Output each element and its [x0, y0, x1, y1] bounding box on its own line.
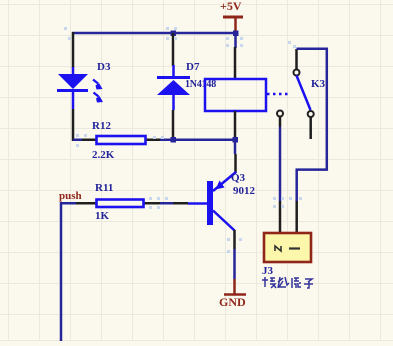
- svg-text:R12: R12: [92, 120, 111, 132]
- wire top horizontal +5V rail: [72, 32, 236, 35]
- pin J3 pin1: [279, 201, 282, 234]
- svg-text:D7: D7: [186, 61, 200, 73]
- relay K3 coil body: [205, 79, 266, 111]
- transistor Q3: [188, 172, 236, 231]
- svg-text:R11: R11: [95, 182, 113, 194]
- wire relay junction down to Q3 emitter: [234, 140, 237, 154]
- wire collector to GND: [233, 249, 236, 279]
- power GND symbol: [219, 279, 246, 309]
- pin Q3 emitter: [234, 154, 237, 173]
- selection grid dots (light): [64, 27, 302, 253]
- wire K3 top to right rail: [297, 49, 327, 201]
- power +5V symbol: [220, 0, 243, 32]
- label 接线端子: [262, 277, 313, 288]
- junction dot at D7 top: [171, 31, 177, 37]
- svg-text:+5V: +5V: [220, 0, 242, 13]
- svg-text:GND: GND: [219, 295, 246, 309]
- svg-text:9012: 9012: [233, 185, 256, 197]
- svg-text:1N4148: 1N4148: [185, 79, 216, 90]
- svg-text:1K: 1K: [95, 210, 110, 222]
- svg-text:D3: D3: [97, 61, 111, 73]
- wire push row horizontal: [60, 202, 188, 205]
- wire +5V junction down: [234, 33, 237, 48]
- terminal block J3 body: [264, 233, 311, 262]
- pin D7 bottom: [172, 110, 175, 141]
- pin K3 common top: [295, 49, 298, 70]
- LED D3: [57, 67, 103, 109]
- wire push row left vertical: [60, 202, 63, 341]
- svg-text:K3: K3: [311, 78, 326, 90]
- svg-text:J3: J3: [262, 265, 274, 277]
- svg-text:Q3: Q3: [231, 172, 246, 184]
- svg-text:2.2K: 2.2K: [92, 149, 115, 161]
- pin D3 cathode: [72, 109, 75, 141]
- junction dot D7 bottom: [171, 137, 177, 143]
- wire K3 NO contact to J3: [279, 127, 282, 201]
- svg-text:push: push: [59, 190, 82, 202]
- diode D7: [157, 65, 190, 110]
- dashed mechanical link relay to K3: [267, 93, 290, 96]
- wire R12 row: [73, 139, 235, 142]
- pin relay coil bottom: [234, 111, 237, 140]
- resistor R12: [97, 136, 146, 144]
- pin J3 pin2: [295, 201, 298, 234]
- switch K3: [277, 70, 314, 118]
- pin K3 NC contact stub: [309, 117, 312, 139]
- wire left vertical upper (D3 anode drop): [72, 32, 75, 68]
- resistor R11: [97, 200, 144, 208]
- junction dot at +5V: [233, 31, 239, 37]
- pin Q3 collector drop: [233, 230, 236, 249]
- pin K3 NO contact down: [279, 117, 282, 128]
- junction dot relay bottom: [233, 137, 239, 143]
- pin relay coil top: [234, 47, 237, 80]
- pin D7 top: [172, 33, 175, 66]
